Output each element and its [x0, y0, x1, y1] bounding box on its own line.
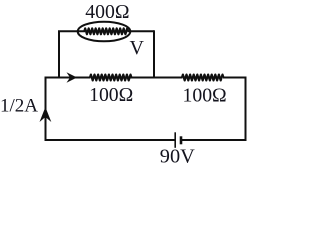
label 1/2A	[0, 96, 38, 117]
wire: top branch right vertical leg	[153, 30, 155, 78]
label 100Ω (left resistor)	[89, 84, 133, 106]
resistor R2 100Ω (zigzag on middle wire)	[182, 75, 223, 81]
label 100Ω (right resistor)	[183, 85, 227, 107]
resistor 400Ω (zigzag inside voltmeter ellipse)	[84, 28, 128, 34]
wire: bottom wire left segment	[45, 139, 176, 141]
label 90V	[160, 146, 195, 168]
wire: middle horizontal wire center segment	[130, 77, 183, 79]
wire: top branch left vertical leg	[58, 31, 60, 78]
svg-text:1/2A: 1/2A	[0, 96, 38, 117]
label V (voltmeter letter)	[130, 37, 145, 59]
wire: middle horizontal wire left segment	[46, 77, 91, 79]
wire: top branch left horizontal segment	[58, 30, 85, 32]
wire: top branch right horizontal segment	[128, 30, 155, 32]
resistor R1 100Ω (zigzag on middle wire)	[90, 75, 131, 81]
svg-text:100Ω: 100Ω	[183, 85, 227, 107]
battery B1: long positive plate	[174, 132, 176, 148]
label 400Ω	[85, 1, 129, 23]
wire: left vertical wire of outer loop	[45, 77, 47, 141]
voltmeter V (ellipse around 400-ohm resistor)	[78, 22, 131, 42]
wire: middle horizontal wire right segment	[223, 77, 246, 79]
svg-text:90V: 90V	[160, 146, 195, 168]
wire: right vertical wire of outer loop	[245, 77, 247, 142]
svg-text:V: V	[130, 37, 145, 59]
arrow: current direction on middle wire	[67, 72, 78, 82]
arrow: current direction 1/2A on left wire (pointing up)	[40, 107, 52, 122]
wire: bottom wire right segment	[181, 139, 247, 141]
svg-text:100Ω: 100Ω	[89, 84, 133, 106]
svg-text:400Ω: 400Ω	[85, 1, 129, 23]
battery B1: short negative plate	[180, 136, 183, 144]
